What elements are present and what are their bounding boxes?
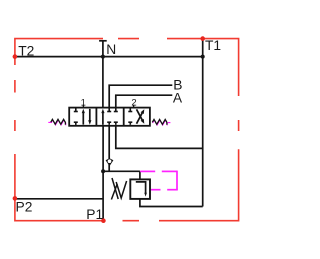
arrowhead: V1 pos2 arrow A->T — [141, 119, 145, 124]
wire: T1 drop line (right side) — [202, 39, 204, 207]
svg-text:T2: T2 — [18, 43, 34, 58]
wire: N riser with port cap — [102, 41, 104, 108]
V1 center box: P carryover up arrow — [102, 112, 104, 125]
relief valve RV1 drain to tank — [140, 199, 203, 207]
svg-text:P1: P1 — [86, 207, 103, 222]
wire: B work line — [109, 85, 172, 107]
V1 position 2: crossed arrows — [137, 112, 143, 124]
arrowhead: V1 center up arrow — [101, 109, 104, 113]
wire: T2-N-T1 tank gallery (horizontal) — [15, 56, 203, 58]
directional valve V1 body (3 position boxes) — [69, 108, 150, 126]
V1 center box: blocked stubs bottom — [108, 122, 110, 125]
wire: P1 down to port — [102, 171, 104, 220]
relief valve RV1 adjustable spring — [111, 178, 126, 200]
spring left of V1 (magenta underlay) — [48, 120, 65, 125]
port dot P2 — [13, 196, 18, 201]
spring left of V1 — [51, 119, 66, 124]
spring right of V1 — [152, 119, 167, 124]
svg-text:A: A — [173, 91, 183, 106]
relief valve RV1 body — [130, 179, 150, 199]
svg-text:P2: P2 — [16, 200, 33, 215]
V1 position 1: up arrow — [82, 112, 84, 125]
junction node at T1 — [201, 55, 205, 59]
spring right of V1 (magenta underlay) — [153, 120, 171, 125]
arrowhead: V1 pos2 arrow P->B — [141, 109, 145, 114]
wire: check valve branch under valve — [108, 126, 110, 172]
V1 center box: blocked stubs top — [107, 109, 118, 125]
junction node P1/relief gallery — [101, 169, 105, 173]
relief valve RV1 internal flow arrow — [136, 182, 146, 194]
junction node at N — [101, 55, 105, 59]
wire: A/B tank return to T1 — [116, 126, 203, 149]
arrowhead: V1 pos1 up arrow — [82, 109, 85, 113]
wire: P2 line — [15, 198, 103, 200]
svg-text:N: N — [106, 42, 116, 57]
relief valve RV1 feed stub — [139, 171, 141, 179]
V1 position 1: down arrow — [89, 109, 91, 122]
wire: P1 riser under valve — [102, 126, 104, 172]
pilot line (magenta dashed vent) — [140, 171, 178, 190]
port dot T2 — [13, 54, 18, 59]
arrowhead: V1 pos1 down arrow — [88, 120, 91, 124]
subplate boundary (red dash-dot frame) — [15, 39, 239, 221]
svg-text:T1: T1 — [205, 38, 221, 53]
check valve CV1 (ball in seat) — [106, 158, 114, 166]
V1 position 1 (left box): blocked stub pair — [74, 109, 78, 125]
port dot P1 — [101, 218, 106, 223]
wire: relief gallery — [103, 170, 140, 172]
wire: A work line — [116, 95, 173, 107]
port dot T1 — [200, 36, 205, 41]
V1 position 2 (right box): blocked stub pair — [128, 109, 132, 125]
